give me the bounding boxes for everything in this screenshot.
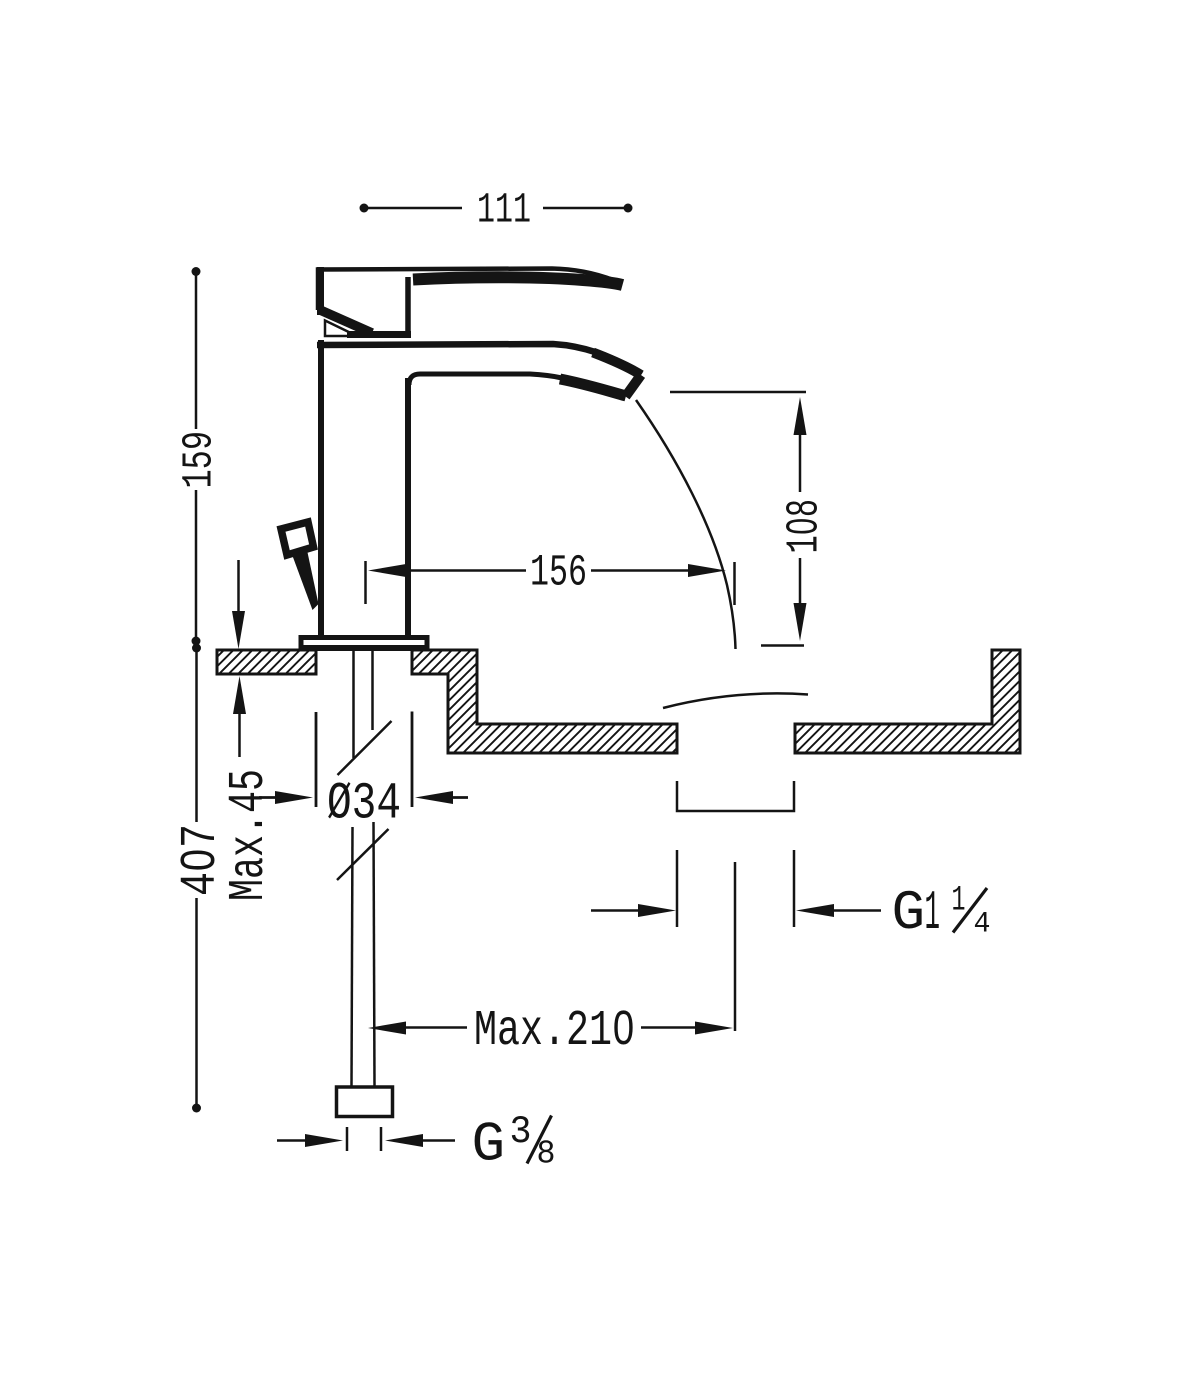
label G1 1/4 (892, 881, 991, 946)
svg-text:4: 4 (974, 908, 991, 942)
drain tailpiece right edge (793, 850, 796, 927)
supply hose upper segments (354, 651, 373, 758)
dimension G1 1/4 (drain thread) (591, 904, 881, 917)
dimension Ø34 (hole diameter) (259, 712, 468, 808)
handle base wedge (319, 310, 372, 337)
countertop left section (hatched) (217, 650, 316, 674)
base flange (301, 638, 427, 649)
hose break line upper (338, 721, 392, 775)
svg-text:Max.210: Max.210 (474, 1003, 635, 1060)
pop-up waste knob (281, 522, 314, 555)
svg-text:Ø34: Ø34 (327, 775, 401, 834)
faucet handle lever (318, 267, 623, 315)
water stream arc (636, 400, 736, 649)
basin bottom arc over drain (663, 693, 808, 708)
drain centre line (734, 862, 737, 1031)
dimension 159 (height above deck, left) (192, 267, 201, 646)
label G 3/8 (472, 1110, 556, 1177)
svg-text:1: 1 (952, 881, 966, 921)
countertop right section with basin wall (hatched) (795, 650, 1020, 753)
supply hose lower segments (352, 822, 375, 1086)
dimension 156 (reach to stream) (366, 561, 735, 605)
svg-text:G: G (892, 881, 926, 945)
dimension 108 (stream height) (670, 392, 807, 646)
Max.45 arrow up (233, 676, 246, 757)
svg-text:3: 3 (510, 1110, 532, 1154)
hose break line lower (337, 829, 389, 880)
hose end nut (337, 1087, 393, 1117)
faucet body and spout (317, 340, 641, 636)
dimension G 3/8 (hose thread) (277, 1127, 455, 1151)
pop-up rod (292, 550, 319, 610)
countertop middle section with basin wall (hatched) (412, 650, 677, 753)
cartridge collar (347, 277, 411, 335)
drain hole bracket (677, 781, 794, 811)
drain tailpiece left edge (676, 850, 679, 927)
svg-text:156: 156 (530, 549, 587, 599)
dimension 111 (spout reach, top) (360, 204, 633, 213)
svg-text:111: 111 (477, 186, 531, 235)
Max.45 arrow down (232, 560, 245, 649)
svg-text:Max.45: Max.45 (221, 769, 278, 901)
svg-text:G: G (472, 1113, 506, 1177)
spout aerator tip (560, 353, 641, 397)
svg-text:1: 1 (925, 881, 941, 945)
svg-text:8: 8 (537, 1136, 556, 1173)
dimension Max.210 (hose reach) (368, 1022, 733, 1035)
dimension 407 (total height with hose, left) (192, 644, 201, 1113)
svg-text:159: 159 (175, 431, 224, 489)
